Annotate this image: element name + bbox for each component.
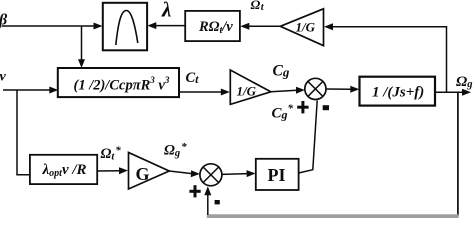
svg-text:λoptv /R: λoptv /R: [42, 162, 87, 179]
svg-text:Cg*: Cg*: [272, 103, 294, 122]
gain 1/G top: [280, 9, 323, 46]
wire feedback up into summing junction 2: [204, 186, 211, 215]
block lambda-opt v / R: [30, 155, 97, 184]
svg-text:(1 /2)/CcpπR3 v3: (1 /2)/CcpπR3 v3: [74, 75, 170, 94]
label plus upper: [297, 101, 308, 113]
wire summing junction 2 to PI: [222, 170, 255, 177]
summing junction 1: [305, 78, 326, 99]
wire v input: [3, 87, 58, 94]
block 1/(Js+f): [360, 77, 436, 106]
wire bottom feedback right vertical: [457, 92, 459, 216]
block Cp curve: [103, 3, 147, 51]
block aerodynamic torque: [58, 68, 179, 97]
wire omega-g output: [435, 89, 471, 96]
wire bottom feedback bar: [207, 214, 459, 218]
svg-text:λ: λ: [161, 0, 171, 22]
svg-text:Ωt*: Ωt*: [101, 145, 122, 163]
gain G: [129, 153, 170, 190]
svg-text:Cg: Cg: [273, 63, 290, 80]
label plus lower: [189, 185, 200, 197]
wire summing junction 1 to inertia block: [326, 86, 359, 93]
wire beta branch down into aero block: [78, 26, 85, 68]
svg-text:1/G: 1/G: [296, 19, 316, 34]
wire Omega-t from 1/G to ROt/v: [240, 23, 280, 30]
label minus upper: [323, 105, 329, 110]
wire v branch to lambda-opt block: [17, 90, 30, 175]
wire gain G to summing junction 2: [169, 170, 200, 177]
svg-text:1 /(Js+f): 1 /(Js+f): [372, 85, 424, 101]
svg-text:1/G: 1/G: [237, 83, 257, 98]
svg-text:v: v: [0, 70, 7, 85]
svg-text:Ωg*: Ωg*: [164, 141, 187, 159]
svg-text:β: β: [0, 12, 8, 29]
gain 1/G middle: [230, 70, 270, 104]
wire beta input: [2, 23, 103, 30]
svg-text:PI: PI: [268, 165, 286, 185]
block R Omega-t / v: [185, 11, 240, 41]
wire top feedback: [324, 23, 447, 92]
svg-text:Ωg: Ωg: [456, 74, 472, 90]
summing junction 2: [200, 164, 222, 186]
wire Ct: [179, 89, 230, 96]
wire Cg to summing junction 1: [271, 87, 305, 94]
svg-text:Ωt: Ωt: [251, 0, 265, 13]
svg-text:Ct: Ct: [186, 70, 200, 86]
wire lambda into Cp block: [147, 22, 185, 29]
block PI: [256, 159, 299, 190]
svg-text:RΩt/v: RΩt/v: [198, 19, 233, 36]
wire Omega-t-star to gain G: [97, 167, 128, 174]
svg-text:G: G: [136, 164, 150, 184]
label minus lower: [215, 200, 220, 204]
wire PI up to summing junction 1: [299, 101, 318, 174]
